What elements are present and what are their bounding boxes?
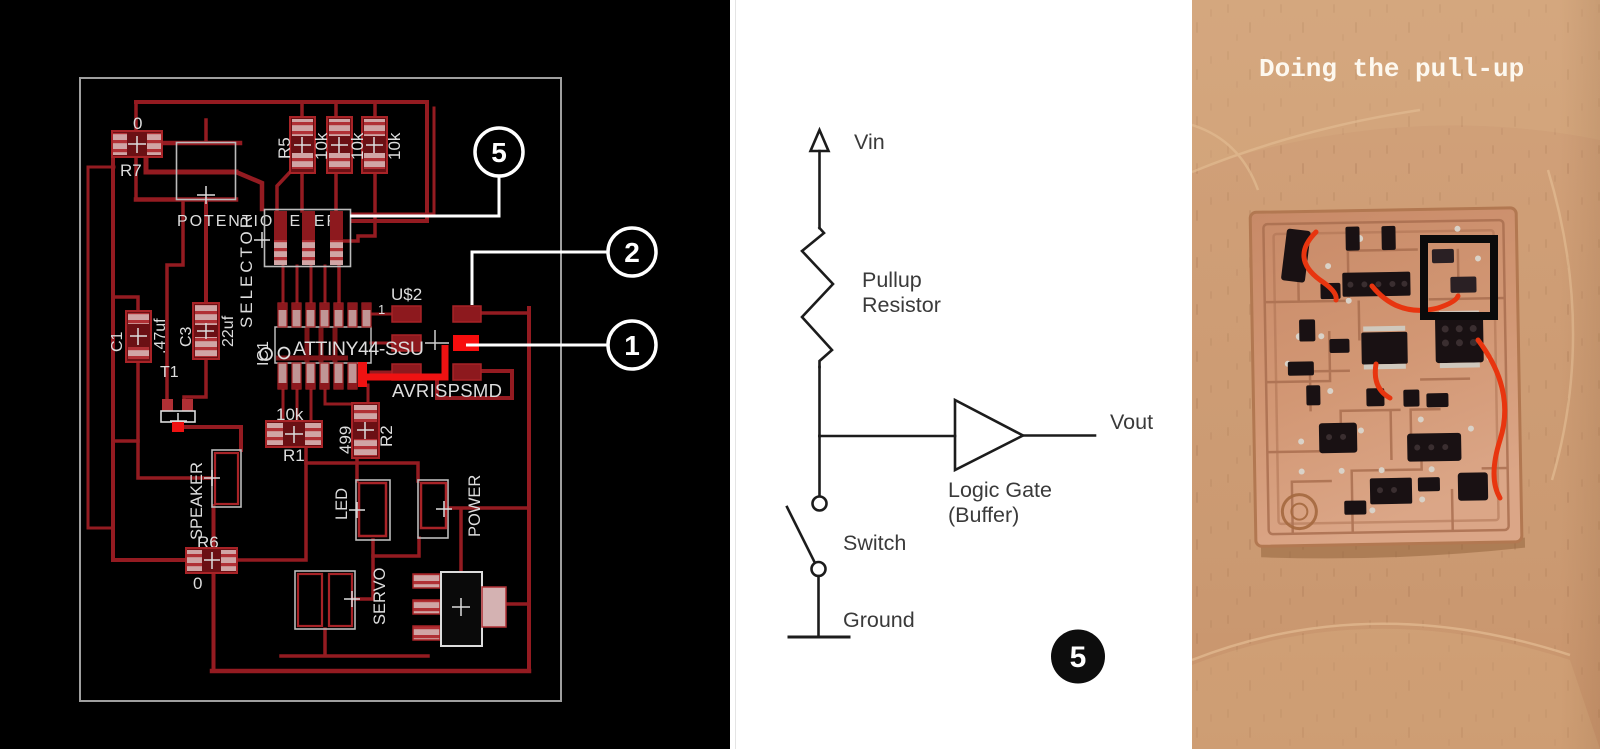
svg-text:(Buffer): (Buffer) (948, 503, 1019, 527)
highlight pad 1 (453, 335, 479, 351)
svg-text:0: 0 (133, 114, 142, 133)
svg-text:499: 499 (336, 426, 355, 454)
wire IC to R2 (325, 385, 368, 404)
svg-text:Logic Gate: Logic Gate (948, 478, 1052, 502)
wire C1 to speaker (138, 363, 211, 478)
wire node to buffer input (820, 435, 956, 438)
wire pot top trace (148, 141, 240, 146)
wire pot bottom trace (136, 197, 236, 202)
LED (333, 480, 390, 540)
svg-text:5: 5 (491, 137, 507, 168)
wire C3 to T1 (184, 357, 206, 402)
svg-text:C1: C1 (109, 331, 126, 352)
svg-text:10k: 10k (385, 132, 404, 160)
ic pins (1363, 310, 1480, 369)
resistor R5 (275, 117, 315, 173)
red jumper wires (1304, 232, 1505, 498)
callout circle 1 (608, 321, 656, 369)
annotation square (1424, 239, 1494, 316)
board outline (80, 78, 561, 701)
wire resistor tops (302, 102, 375, 120)
wire U$2 pin1 to IC (371, 313, 392, 316)
wire T1 to speaker (184, 427, 241, 450)
wire R6 right to R1 (236, 446, 306, 560)
small parts in square (1432, 248, 1477, 293)
wire power right (448, 506, 529, 510)
wire C1 feed (113, 297, 138, 312)
wire pot middle trace (146, 143, 236, 172)
svg-text:22uf: 22uf (220, 315, 237, 347)
wire avrisp left pads to IC (371, 343, 392, 372)
wire resistor bottoms to header (277, 170, 375, 303)
wire top bus (136, 100, 427, 104)
wire node to switch (818, 436, 821, 496)
svg-text:5: 5 (1070, 641, 1087, 674)
svg-text:SELECTOR: SELECTOR (237, 216, 256, 328)
callout line 5 (350, 176, 499, 216)
wire right rail (527, 308, 531, 671)
op-amp buffer U1 (logic gate) (955, 400, 1023, 470)
svg-text:1: 1 (624, 330, 640, 361)
capacitor C3 (178, 303, 237, 359)
svg-text:SPEAKER: SPEAKER (188, 462, 206, 540)
label ATTINY44-SSU (293, 338, 449, 360)
resistor 10k #3 (348, 117, 387, 173)
connector U$2 AVRISPSMD (378, 285, 502, 401)
svg-text:Switch: Switch (843, 531, 906, 555)
highlight net pin to pad (358, 345, 445, 387)
svg-text:POWER: POWER (466, 475, 484, 537)
svg-text:0: 0 (193, 574, 202, 593)
svg-text:2: 2 (624, 237, 640, 268)
selector header outline (254, 210, 351, 267)
resistor R1 (266, 405, 322, 465)
callout line 1 (466, 344, 607, 347)
transistor T1 (160, 364, 195, 429)
svg-text:U$2: U$2 (391, 285, 422, 304)
potentiometer body (177, 143, 236, 205)
wire switch to ground (817, 576, 820, 637)
callout circle 2 (608, 228, 656, 276)
ground (789, 636, 849, 639)
svg-text:R5: R5 (275, 137, 294, 159)
svg-text:LED: LED (333, 488, 351, 520)
wire pot to C3 (204, 199, 208, 305)
wire R2 to LED (355, 457, 359, 481)
svg-text:T1: T1 (160, 364, 179, 381)
resistor R2 (336, 403, 396, 458)
svg-text:Ground: Ground (843, 608, 915, 632)
svg-text:SERVO: SERVO (371, 567, 389, 625)
wire left rail (113, 154, 187, 560)
svg-text:R7: R7 (120, 161, 142, 180)
photo pcb board (1250, 208, 1525, 560)
svg-text:10k: 10k (312, 132, 331, 160)
svg-text:R2: R2 (377, 425, 396, 447)
resistor R7 (112, 114, 162, 180)
wire LED to servo (355, 540, 373, 599)
wire avrisp top to rail (481, 311, 529, 315)
svg-text:C3: C3 (178, 326, 195, 347)
svg-text:Vout: Vout (1110, 410, 1153, 434)
wire regulator tab to rail (506, 602, 529, 606)
wire bottom bus (212, 669, 529, 674)
wire power to regulator (459, 509, 463, 571)
wire header to IC pins (283, 266, 339, 303)
svg-text:Doing the pull-up: Doing the pull-up (1259, 54, 1524, 84)
solder joints (1282, 225, 1495, 515)
wire IC to R1 (283, 385, 311, 422)
wire avrisp loop (437, 371, 512, 398)
svg-text:Vin: Vin (854, 130, 885, 154)
black headers and ICs (1280, 224, 1488, 516)
wire servo bottom bus (281, 629, 428, 656)
svg-text:R1: R1 (283, 446, 305, 465)
svg-text:IC1: IC1 (255, 341, 272, 366)
header pin dots (1323, 279, 1479, 494)
svg-text:Resistor: Resistor (862, 293, 941, 317)
wire T1 to rail (113, 439, 138, 443)
SERVO connector (295, 567, 389, 629)
Vin power arrow (811, 130, 829, 228)
wire pot top stub (204, 120, 208, 142)
voltage regulator IC2 (413, 572, 506, 646)
wire buffer output Vout (1023, 434, 1095, 437)
wire left loop (88, 167, 114, 528)
wire power top (306, 463, 418, 481)
svg-text:1: 1 (378, 302, 385, 317)
svg-text:AVRISPSMD: AVRISPSMD (392, 380, 502, 401)
wire power bottom stub (373, 538, 419, 556)
capacitor C1 (109, 311, 169, 362)
wire R7 feed through (134, 102, 138, 199)
resistor R6 (186, 533, 237, 593)
speaker (188, 450, 241, 540)
svg-text:Pullup: Pullup (862, 268, 922, 292)
figure number badge 5 (1051, 630, 1105, 684)
callout circle 5 (475, 128, 523, 176)
wire pot diagonal to header (236, 172, 262, 209)
resistor 10k #2 (312, 117, 352, 173)
wire right drop 1 (352, 102, 427, 221)
svg-text:10k: 10k (348, 132, 367, 160)
resistor R (pullup) zigzag (802, 228, 833, 367)
switch S1 (787, 497, 827, 577)
wire pot to T1 (167, 201, 183, 398)
IC1 ATTINY44 (255, 303, 371, 389)
wire speaker through R6 to bottom bus (212, 506, 216, 671)
wire resistor to node (818, 367, 821, 436)
wire right drop 2 (352, 108, 434, 214)
POWER connector (418, 475, 484, 538)
svg-text:.47uf: .47uf (152, 318, 169, 354)
svg-text:ATTINY44-SSU: ATTINY44-SSU (293, 338, 424, 360)
callout line 2 (472, 252, 607, 305)
highlight dot T1 (172, 422, 184, 432)
